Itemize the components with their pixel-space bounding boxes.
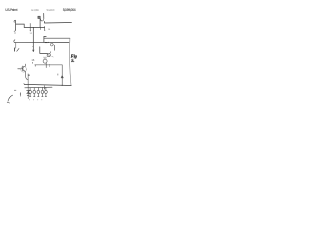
svg-text:U.S. Patent: U.S. Patent: [5, 8, 18, 12]
svg-text:Sheet 5 of 9: Sheet 5 of 9: [46, 8, 55, 12]
svg-text:5.: 5.: [71, 58, 74, 63]
svg-text:5,199,064: 5,199,064: [63, 8, 76, 12]
svg-text:Jan. 1, 1991: Jan. 1, 1991: [31, 8, 40, 12]
